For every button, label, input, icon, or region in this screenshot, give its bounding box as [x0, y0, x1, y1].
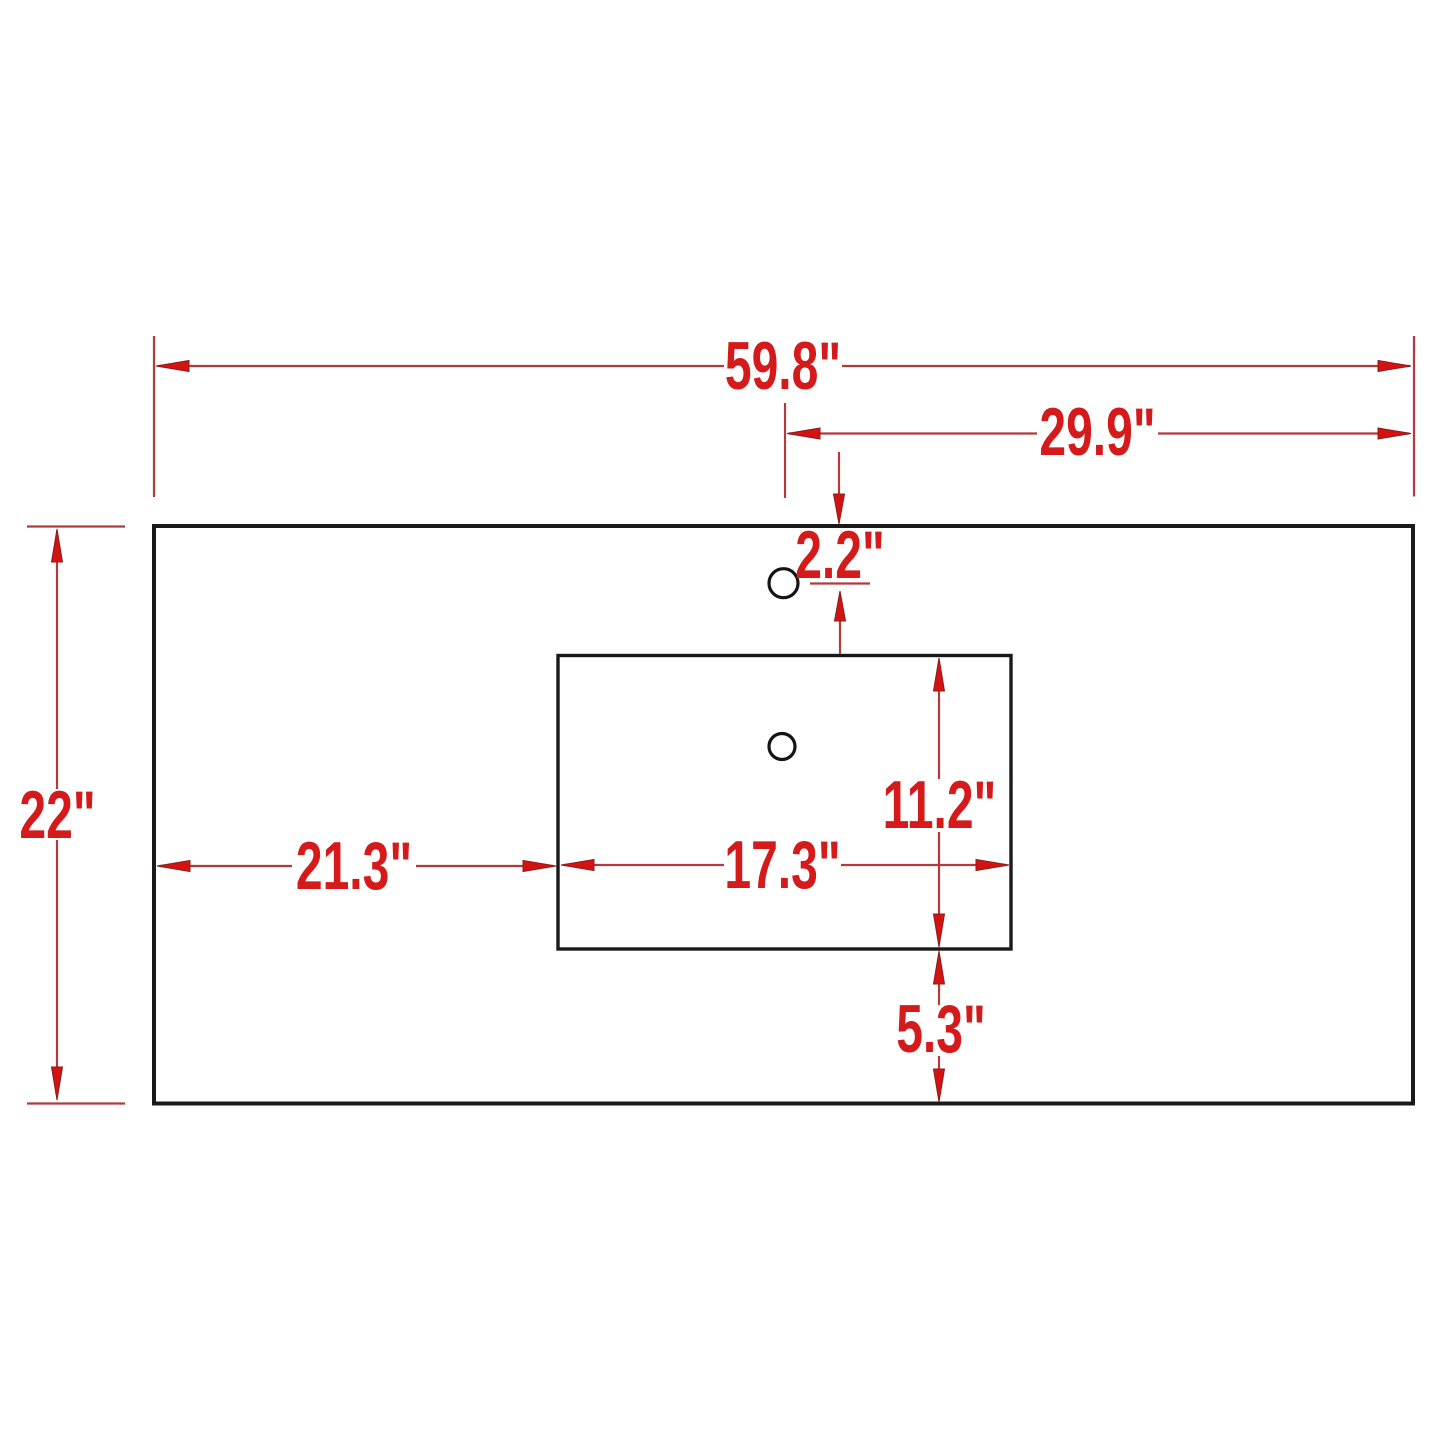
arrowhead 59.8 left — [156, 361, 189, 372]
dimension line 17.3 — [564, 864, 724, 866]
22 top tick — [27, 525, 125, 527]
arrowhead 22 bottom — [52, 1067, 63, 1100]
dimension line 29.9 — [789, 432, 1037, 434]
arrowhead 21.3 right — [523, 861, 556, 872]
svg-text:2.2": 2.2" — [795, 518, 885, 593]
svg-text:22": 22" — [19, 778, 95, 853]
22 bottom tick — [27, 1102, 125, 1104]
faucet hole (top) — [769, 569, 798, 598]
arrowhead 29.9 right — [1378, 428, 1411, 439]
countertop outer rectangle — [154, 526, 1413, 1104]
11.2 vertical dimension — [938, 688, 940, 779]
2.2 tick at faucet hole center level — [810, 582, 870, 584]
svg-text:5.3": 5.3" — [896, 992, 986, 1067]
svg-text:59.8": 59.8" — [725, 329, 841, 404]
arrowhead 17.3 right — [976, 860, 1009, 871]
dimension line 59.8 — [158, 365, 724, 367]
extension line middle (29.9) — [784, 403, 786, 498]
svg-text:17.3": 17.3" — [724, 828, 840, 903]
dimension line 21.3 — [160, 865, 292, 867]
2.2 upper arrow pointing down at countertop top edge — [838, 452, 840, 497]
svg-text:11.2": 11.2" — [883, 768, 997, 843]
svg-text:29.9": 29.9" — [1039, 395, 1155, 470]
arrowhead 22 top — [52, 529, 63, 562]
sink cutout inner rectangle — [558, 656, 1011, 950]
arrowhead 17.3 left — [561, 860, 594, 871]
svg-text:21.3": 21.3" — [296, 829, 412, 904]
arrowhead 59.8 right — [1378, 361, 1411, 372]
extension line right (59.8/29.9) — [1413, 336, 1415, 497]
arrowhead 29.9 left — [787, 428, 820, 439]
extension line left (59.8) — [153, 336, 155, 497]
5.3 vertical dimension — [938, 982, 940, 1005]
overflow hole (center of cutout) — [769, 734, 795, 760]
dimension line 22 vertical — [56, 560, 58, 789]
arrowhead 21.3 left — [157, 861, 190, 872]
2.2 lower arrow pointing up at tick — [839, 618, 841, 654]
